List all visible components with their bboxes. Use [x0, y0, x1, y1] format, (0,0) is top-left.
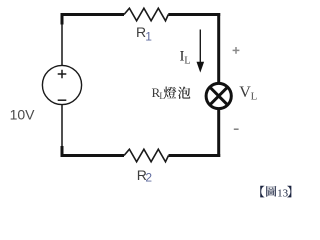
current arrow IL [199, 30, 201, 63]
caption bracket 【 [260, 186, 264, 198]
wire bottom [61, 154, 221, 157]
minus sign (lamp) [234, 128, 239, 130]
wire top-left stub [61, 13, 64, 25]
caption bracket 】 [287, 186, 291, 198]
svg-text:V: V [239, 84, 251, 101]
V1 minus [58, 99, 67, 101]
svg-text:L: L [251, 90, 258, 102]
caption 圖 [266, 186, 276, 197]
wire left upper [61, 24, 63, 66]
lamp label 燈 [164, 87, 177, 99]
svg-text:10V: 10V [10, 107, 36, 123]
resistor R1 [124, 8, 168, 21]
V1 plus [58, 70, 67, 79]
wire bottom-left stub [61, 146, 64, 156]
svg-text:13: 13 [277, 187, 289, 199]
wire left lower [61, 105, 63, 147]
resistor R2 [124, 149, 169, 162]
lamp label 泡 [178, 87, 191, 99]
wire right upper [217, 13, 220, 84]
svg-text:1: 1 [145, 30, 152, 44]
svg-text:2: 2 [145, 171, 152, 185]
wire top [62, 13, 220, 16]
wire right lower [217, 109, 220, 158]
plus sign (lamp) [233, 47, 240, 54]
svg-text:L: L [159, 92, 165, 102]
lamp (circle with X) [206, 83, 231, 108]
svg-text:L: L [184, 56, 190, 67]
voltage source V1 [42, 65, 81, 104]
